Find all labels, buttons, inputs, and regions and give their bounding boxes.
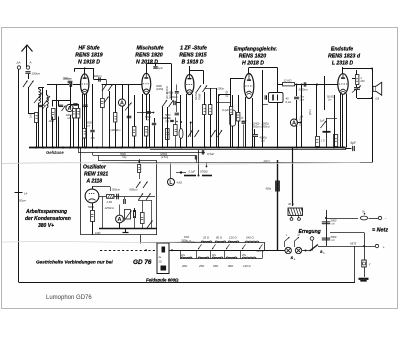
switch Sa contact 2 <box>295 247 301 253</box>
wire out2 <box>357 90 374 99</box>
label Gestrichelte <box>36 259 152 266</box>
wire tube4 topcap <box>249 68 278 85</box>
capacitor 100cm <box>25 72 40 76</box>
wire v78 <box>78 104 80 148</box>
box out trafo <box>334 135 338 147</box>
wire v129 <box>128 84 130 148</box>
svg-text:306cm: 306cm <box>63 76 72 80</box>
svg-text:cm: cm <box>332 223 335 226</box>
wire sb right <box>318 246 326 248</box>
resistor mid box <box>166 129 170 140</box>
wire v70 <box>70 84 72 108</box>
label 600cm osc <box>130 188 139 192</box>
capacitor 5000 a <box>322 219 337 226</box>
antenna labels <box>16 61 32 65</box>
svg-text:0,1μF: 0,1μF <box>189 169 196 173</box>
resistor input 1 <box>35 113 39 123</box>
diode block <box>265 93 283 103</box>
svg-text:80 Ω: 80 Ω <box>216 235 223 239</box>
svg-text:NETZ: NETZ <box>350 243 357 246</box>
wire v53 <box>53 100 59 148</box>
svg-text:RENS 1920: RENS 1920 <box>135 53 163 59</box>
artifact line 1 <box>2 163 360 165</box>
label cluster t34 <box>252 123 270 129</box>
svg-text:90Ω: 90Ω <box>228 264 234 268</box>
wire t4 pins <box>246 97 253 148</box>
capacitor osc a <box>117 194 119 200</box>
label 1250cm <box>105 206 115 210</box>
artifact line 2 <box>2 241 200 244</box>
svg-text:cm: cm <box>147 119 150 122</box>
label Feldspule <box>146 277 179 282</box>
lamp l <box>362 260 371 267</box>
wire feld top <box>140 242 181 244</box>
trimmer arrow L1 <box>34 92 43 103</box>
svg-text:A: A <box>29 61 32 65</box>
selector main line <box>264 243 266 251</box>
svg-text:140 Ω: 140 Ω <box>243 264 251 268</box>
meter A1 <box>66 104 73 111</box>
wire h785 <box>352 79 357 88</box>
svg-text:300: 300 <box>91 137 96 140</box>
svg-text:200m: 200m <box>217 87 225 91</box>
svg-text:Arbeitsspannung: Arbeitsspannung <box>25 209 67 215</box>
svg-text:0,5μF: 0,5μF <box>207 152 214 156</box>
svg-text:der Kondensatoren: der Kondensatoren <box>25 216 71 222</box>
tube V4 RENS1820 <box>244 74 254 99</box>
svg-text:4,KΩ: 4,KΩ <box>177 182 183 185</box>
svg-text:50cm: 50cm <box>19 199 27 203</box>
svg-text:500a: 500a <box>266 188 272 191</box>
wire v140 osc-feld <box>140 235 142 244</box>
wire v296 <box>296 85 298 148</box>
label sideways t3 right <box>195 91 202 100</box>
svg-text:(7500): (7500) <box>200 169 208 173</box>
field coil box <box>157 243 169 274</box>
wire fuse right <box>369 216 387 221</box>
label sideways v231 <box>226 90 229 97</box>
label 500cm osc <box>112 188 121 192</box>
wire v302 <box>301 84 303 148</box>
wire fuse line <box>325 217 358 219</box>
label 2M sideways <box>308 109 312 115</box>
svg-text:Gehäuse: Gehäuse <box>46 150 64 155</box>
switch osc3 <box>147 221 153 229</box>
resistor x102 <box>101 84 105 148</box>
svg-text:Erregung: Erregung <box>299 229 321 235</box>
wire v263 <box>262 70 264 148</box>
capacitor osc b <box>124 197 126 205</box>
bus osc <box>99 228 157 230</box>
wire v163 <box>162 107 164 148</box>
svg-text:(2M.): (2M.) <box>308 109 312 115</box>
bus chassis 2 <box>150 149 346 151</box>
svg-text:A 2118: A 2118 <box>86 179 103 185</box>
wire v216 <box>216 88 218 148</box>
resistor t3 r1 <box>203 92 206 148</box>
svg-text:N 2018 D: N 2018 D <box>136 60 158 66</box>
svg-text:L 2318 D: L 2318 D <box>332 61 353 67</box>
selector tap arrows <box>198 244 263 249</box>
label Netz <box>372 228 388 234</box>
wire A osc <box>119 205 121 229</box>
capacitor 5000 b <box>322 235 337 242</box>
wire v43 <box>42 88 44 148</box>
wire sa arms base <box>285 242 295 248</box>
capacitor 6uF <box>346 141 358 151</box>
label 100m <box>66 113 73 120</box>
cap 5000cm t2 <box>137 112 154 122</box>
meter A osc <box>116 215 124 223</box>
svg-text:380 V+: 380 V+ <box>38 223 54 229</box>
label 200cm t3 <box>217 87 225 91</box>
label 01 5000 <box>189 169 208 173</box>
capacitor grid1 <box>59 105 63 106</box>
wire osc gnd stub <box>123 229 129 233</box>
wire v168 <box>167 107 169 148</box>
svg-text:2,5Ω: 2,5Ω <box>106 200 113 204</box>
capacitor rail mid <box>195 155 196 163</box>
svg-text:700cm): 700cm) <box>170 90 173 99</box>
svg-text:RENS 1823 d: RENS 1823 d <box>328 54 361 60</box>
wire v364 lamp <box>364 246 366 260</box>
svg-text:50KΩ: 50KΩ <box>88 206 94 209</box>
label rail 5000 <box>120 152 127 159</box>
label 4k t34 <box>242 120 247 123</box>
wire v278 <box>277 85 279 148</box>
wire h103 <box>176 102 181 104</box>
wire osc grid wire <box>92 187 111 192</box>
svg-text:Endstufe: Endstufe <box>331 47 353 53</box>
svg-text:i.A: i.A <box>67 116 70 120</box>
wire osc left <box>80 148 82 236</box>
svg-text:0,1μF: 0,1μF <box>222 108 229 112</box>
wire osc toprail <box>99 196 155 198</box>
meter A2 <box>118 99 125 106</box>
label 220V <box>256 249 266 253</box>
switch t3 anode <box>197 85 208 92</box>
box oscillator bottom <box>81 234 157 236</box>
svg-text:Feldspule 600Ω: Feldspule 600Ω <box>146 277 179 282</box>
capacitor 300cm a <box>64 77 73 83</box>
svg-text:240 Ω: 240 Ω <box>245 235 254 239</box>
wire v334 <box>334 95 336 148</box>
wire v345 end <box>345 148 347 150</box>
wire A3 <box>298 116 303 123</box>
svg-text:100cm: 100cm <box>32 72 41 76</box>
svg-text:(400)Δm: (400)Δm <box>111 128 122 132</box>
wire bottom <box>19 282 356 284</box>
switch antenna <box>23 81 34 88</box>
resistor 1M <box>49 109 56 124</box>
resistor osc r2 <box>141 201 145 229</box>
svg-text:TWW: TWW <box>199 93 202 100</box>
label Arbeitsspannung <box>25 209 71 229</box>
resistor mid2 <box>133 127 136 137</box>
wire ant down <box>28 74 30 79</box>
wire t3 pins <box>187 94 193 148</box>
bus chassis <box>29 147 346 149</box>
wire sa to sb <box>302 250 312 252</box>
capacitor 306cm t1 <box>63 76 72 87</box>
svg-text:0,4a: 0,4a <box>286 100 292 104</box>
label 4000 low <box>260 137 268 143</box>
label La <box>376 97 380 101</box>
coil L2 <box>47 95 49 108</box>
label Endstufe <box>328 47 361 67</box>
wire v181 <box>180 95 182 129</box>
wire t5 pins <box>341 94 347 148</box>
rail 155 <box>93 152 197 155</box>
svg-text:N 1918 D: N 1918 D <box>78 60 100 66</box>
svg-text:Gestrichelte Verbindungen nur: Gestrichelte Verbindungen nur bei <box>36 260 113 265</box>
switch osc upper <box>136 182 148 189</box>
svg-text:L4: L4 <box>24 192 28 196</box>
svg-text:La: La <box>376 97 380 101</box>
transformer terminals <box>290 216 300 221</box>
capacitor osc c <box>134 210 136 218</box>
wire ant sw <box>28 87 36 114</box>
label Mischstufe <box>135 46 163 66</box>
svg-text:RENS 1820: RENS 1820 <box>239 54 267 60</box>
label 220V rail <box>263 160 271 163</box>
wire A2 <box>122 84 124 148</box>
capacitor v296 <box>294 96 304 102</box>
label 4000 t2t3 <box>156 84 163 91</box>
capacitor mid 04 <box>127 116 132 118</box>
rail 163 <box>102 162 372 164</box>
wire v57 <box>56 85 58 148</box>
switch t45 <box>321 121 327 128</box>
resistor t1 k <box>83 129 86 148</box>
label 1G <box>321 140 325 143</box>
wire osc v152 <box>151 201 153 229</box>
label 400dm <box>111 128 122 132</box>
resistor osc1 <box>107 195 115 199</box>
svg-text:Mischstufe: Mischstufe <box>136 46 163 52</box>
svg-text:1μF: 1μF <box>158 66 163 70</box>
ground netz <box>359 279 369 281</box>
capacitor 1f t2 <box>153 64 163 70</box>
tube V3 RENS1915 <box>185 75 194 95</box>
wire osc tube down <box>92 203 94 229</box>
svg-text:−: − <box>385 217 387 221</box>
resistor 12k <box>283 79 295 86</box>
svg-text:REW 1921: REW 1921 <box>84 172 108 178</box>
fuse Si <box>360 210 367 220</box>
label 1000cm <box>166 92 173 95</box>
wire tube2 topcap <box>146 64 171 101</box>
wire v134 <box>134 95 136 148</box>
svg-text:220 V: 220 V <box>256 249 266 253</box>
wire h263 diode <box>263 104 268 106</box>
wire v39 <box>38 103 40 148</box>
trimmer meter A1 <box>62 106 66 112</box>
switch t2t3 <box>162 100 174 107</box>
resistor out1 <box>356 70 359 85</box>
wire v317 <box>316 84 318 137</box>
marker L4 <box>15 192 28 203</box>
wire v277 down <box>277 160 279 250</box>
svg-text:cm: cm <box>332 239 335 242</box>
svg-text:ΔA: ΔA <box>16 61 21 65</box>
label Empfangsgleichr <box>234 47 277 67</box>
box oscillator right <box>156 161 158 235</box>
label 2EK sideways <box>296 117 303 126</box>
svg-text:A: A <box>120 100 124 106</box>
trimmer x106 <box>104 97 109 104</box>
wire v326 <box>326 210 328 246</box>
svg-text:RENS 1819: RENS 1819 <box>75 53 103 59</box>
wire tube5 topcap <box>343 67 374 163</box>
svg-text:1 G: 1 G <box>321 140 325 143</box>
speaker La <box>373 82 382 95</box>
label rail 5000b <box>160 153 169 159</box>
capacitor x40 <box>38 105 46 110</box>
svg-text:94Ω: 94Ω <box>213 264 219 268</box>
label TKO sideways <box>29 113 33 118</box>
label Oszillator <box>83 165 108 185</box>
label out1 <box>360 77 365 83</box>
bus junction dots <box>35 146 344 148</box>
label PO <box>180 236 190 243</box>
svg-text:= Netz: = Netz <box>372 228 388 234</box>
tube V6 oscillator <box>85 187 99 203</box>
svg-text:20Ω: 20Ω <box>181 264 188 268</box>
capacitor t2 b <box>152 118 156 148</box>
wire t2 grid line <box>102 80 142 85</box>
svg-text:5000cm: 5000cm <box>299 88 309 92</box>
svg-text:25 Ω: 25 Ω <box>202 235 210 239</box>
label AD block <box>286 97 292 105</box>
wire elco <box>323 118 338 148</box>
wire osc v134 <box>134 208 136 229</box>
wire t4 grid left <box>218 79 244 97</box>
wire osc v92 down <box>92 229 94 236</box>
label Gehaeuse <box>46 150 64 155</box>
switch Sb <box>310 245 326 256</box>
svg-text:300am: 300am <box>296 119 299 126</box>
svg-text:1KΩ: 1KΩ <box>29 113 33 118</box>
svg-text:300cm: 300cm <box>94 74 103 78</box>
wire t2 pins <box>143 94 150 148</box>
switch t2 grid <box>102 84 113 91</box>
resistor in3 <box>77 109 80 119</box>
label 25ohm osc <box>106 200 113 204</box>
wire v110 <box>109 91 111 148</box>
svg-text:2m: 2m <box>327 99 331 102</box>
wire h84 t4 <box>278 82 338 86</box>
trimmer arrow L2 <box>42 96 50 107</box>
capacitor t34 low <box>252 129 258 148</box>
svg-text:220 V: 220 V <box>263 160 271 163</box>
label rail 05uF <box>202 150 214 156</box>
wire h1027 <box>217 102 232 104</box>
caps below rail <box>184 150 212 177</box>
svg-text:GD 76: GD 76 <box>133 259 152 266</box>
label 5000 tm <box>165 114 171 120</box>
label 1M osc <box>95 232 100 235</box>
svg-text:HF Stufe: HF Stufe <box>78 46 99 52</box>
tube V5 RENS1823 <box>338 74 348 95</box>
svg-text:25Ω: 25Ω <box>198 264 205 268</box>
svg-text:120 Ω: 120 Ω <box>229 235 237 239</box>
svg-text:1250cm: 1250cm <box>105 206 115 210</box>
svg-text:B 1918 D: B 1918 D <box>182 60 204 66</box>
trimmer box osc <box>124 210 132 222</box>
selector row1 <box>181 235 265 242</box>
selector row2 <box>180 250 263 268</box>
svg-text:500cm: 500cm <box>112 188 121 192</box>
wire dashed GD76 <box>100 250 156 252</box>
resistor v238 <box>237 95 240 148</box>
capacitor 300cm b <box>94 74 103 82</box>
wire antenna left <box>18 69 20 282</box>
terminal sb top <box>310 237 314 251</box>
svg-text:1μF: 1μF <box>320 120 325 123</box>
svg-text:Oszillator: Oszillator <box>83 165 107 171</box>
label ZF-Stufe <box>179 46 207 66</box>
svg-text:(2,5m): (2,5m) <box>161 156 169 159</box>
svg-text:(Tm): (Tm) <box>166 117 171 120</box>
svg-text:cm: cm <box>87 125 90 128</box>
wire v47 <box>46 90 48 148</box>
svg-text:2Ω: 2Ω <box>158 261 162 264</box>
label HF Stufe <box>75 46 103 66</box>
switch Sa arms <box>285 235 300 242</box>
trimmer out <box>352 86 361 93</box>
switch t3t4 low <box>211 130 222 137</box>
resistor t2 k <box>145 127 148 148</box>
coil L1 <box>39 89 41 103</box>
resistor osc top <box>138 159 141 179</box>
svg-text:Empfangsgleichr.: Empfangsgleichr. <box>234 47 277 53</box>
capacitor t1 b <box>90 84 94 148</box>
label 50000 <box>327 96 335 102</box>
rail 161 <box>98 155 157 161</box>
antenna arrow <box>22 45 33 68</box>
svg-text:M: M <box>298 235 300 237</box>
label sideways t3 left <box>166 86 173 99</box>
resistor v231 <box>230 107 233 115</box>
capacitor 1u t4 <box>241 117 246 148</box>
meter A3 <box>290 119 297 126</box>
wire osc midrail <box>138 200 152 202</box>
wire h88 t3 <box>205 88 217 90</box>
svg-text:12 KΩ: 12 KΩ <box>284 79 293 83</box>
wire h109 <box>70 105 88 107</box>
svg-text:H 2018 D: H 2018 D <box>242 61 264 67</box>
svg-text:1MΩ: 1MΩ <box>49 119 55 123</box>
wire tube3 topcap <box>190 66 204 84</box>
wire netz mid <box>330 233 365 247</box>
label Erregung <box>299 229 321 235</box>
wire osc v103 <box>102 197 104 229</box>
wire v36 <box>36 114 38 148</box>
antenna terminal A1 <box>17 66 20 69</box>
tube V2 RENS1920 <box>142 73 151 94</box>
resistor t3 r2 <box>209 88 212 148</box>
wire v70b <box>70 115 72 148</box>
wire t1 grid <box>47 84 81 86</box>
capacitor 250cm <box>169 95 179 105</box>
label Sa <box>291 255 296 261</box>
label 5000cm r <box>299 88 309 92</box>
wire v355 down <box>354 246 356 282</box>
svg-text:600cm: 600cm <box>130 188 139 192</box>
wire h695 l <box>0 0 1 1</box>
wire feld right <box>145 249 288 251</box>
